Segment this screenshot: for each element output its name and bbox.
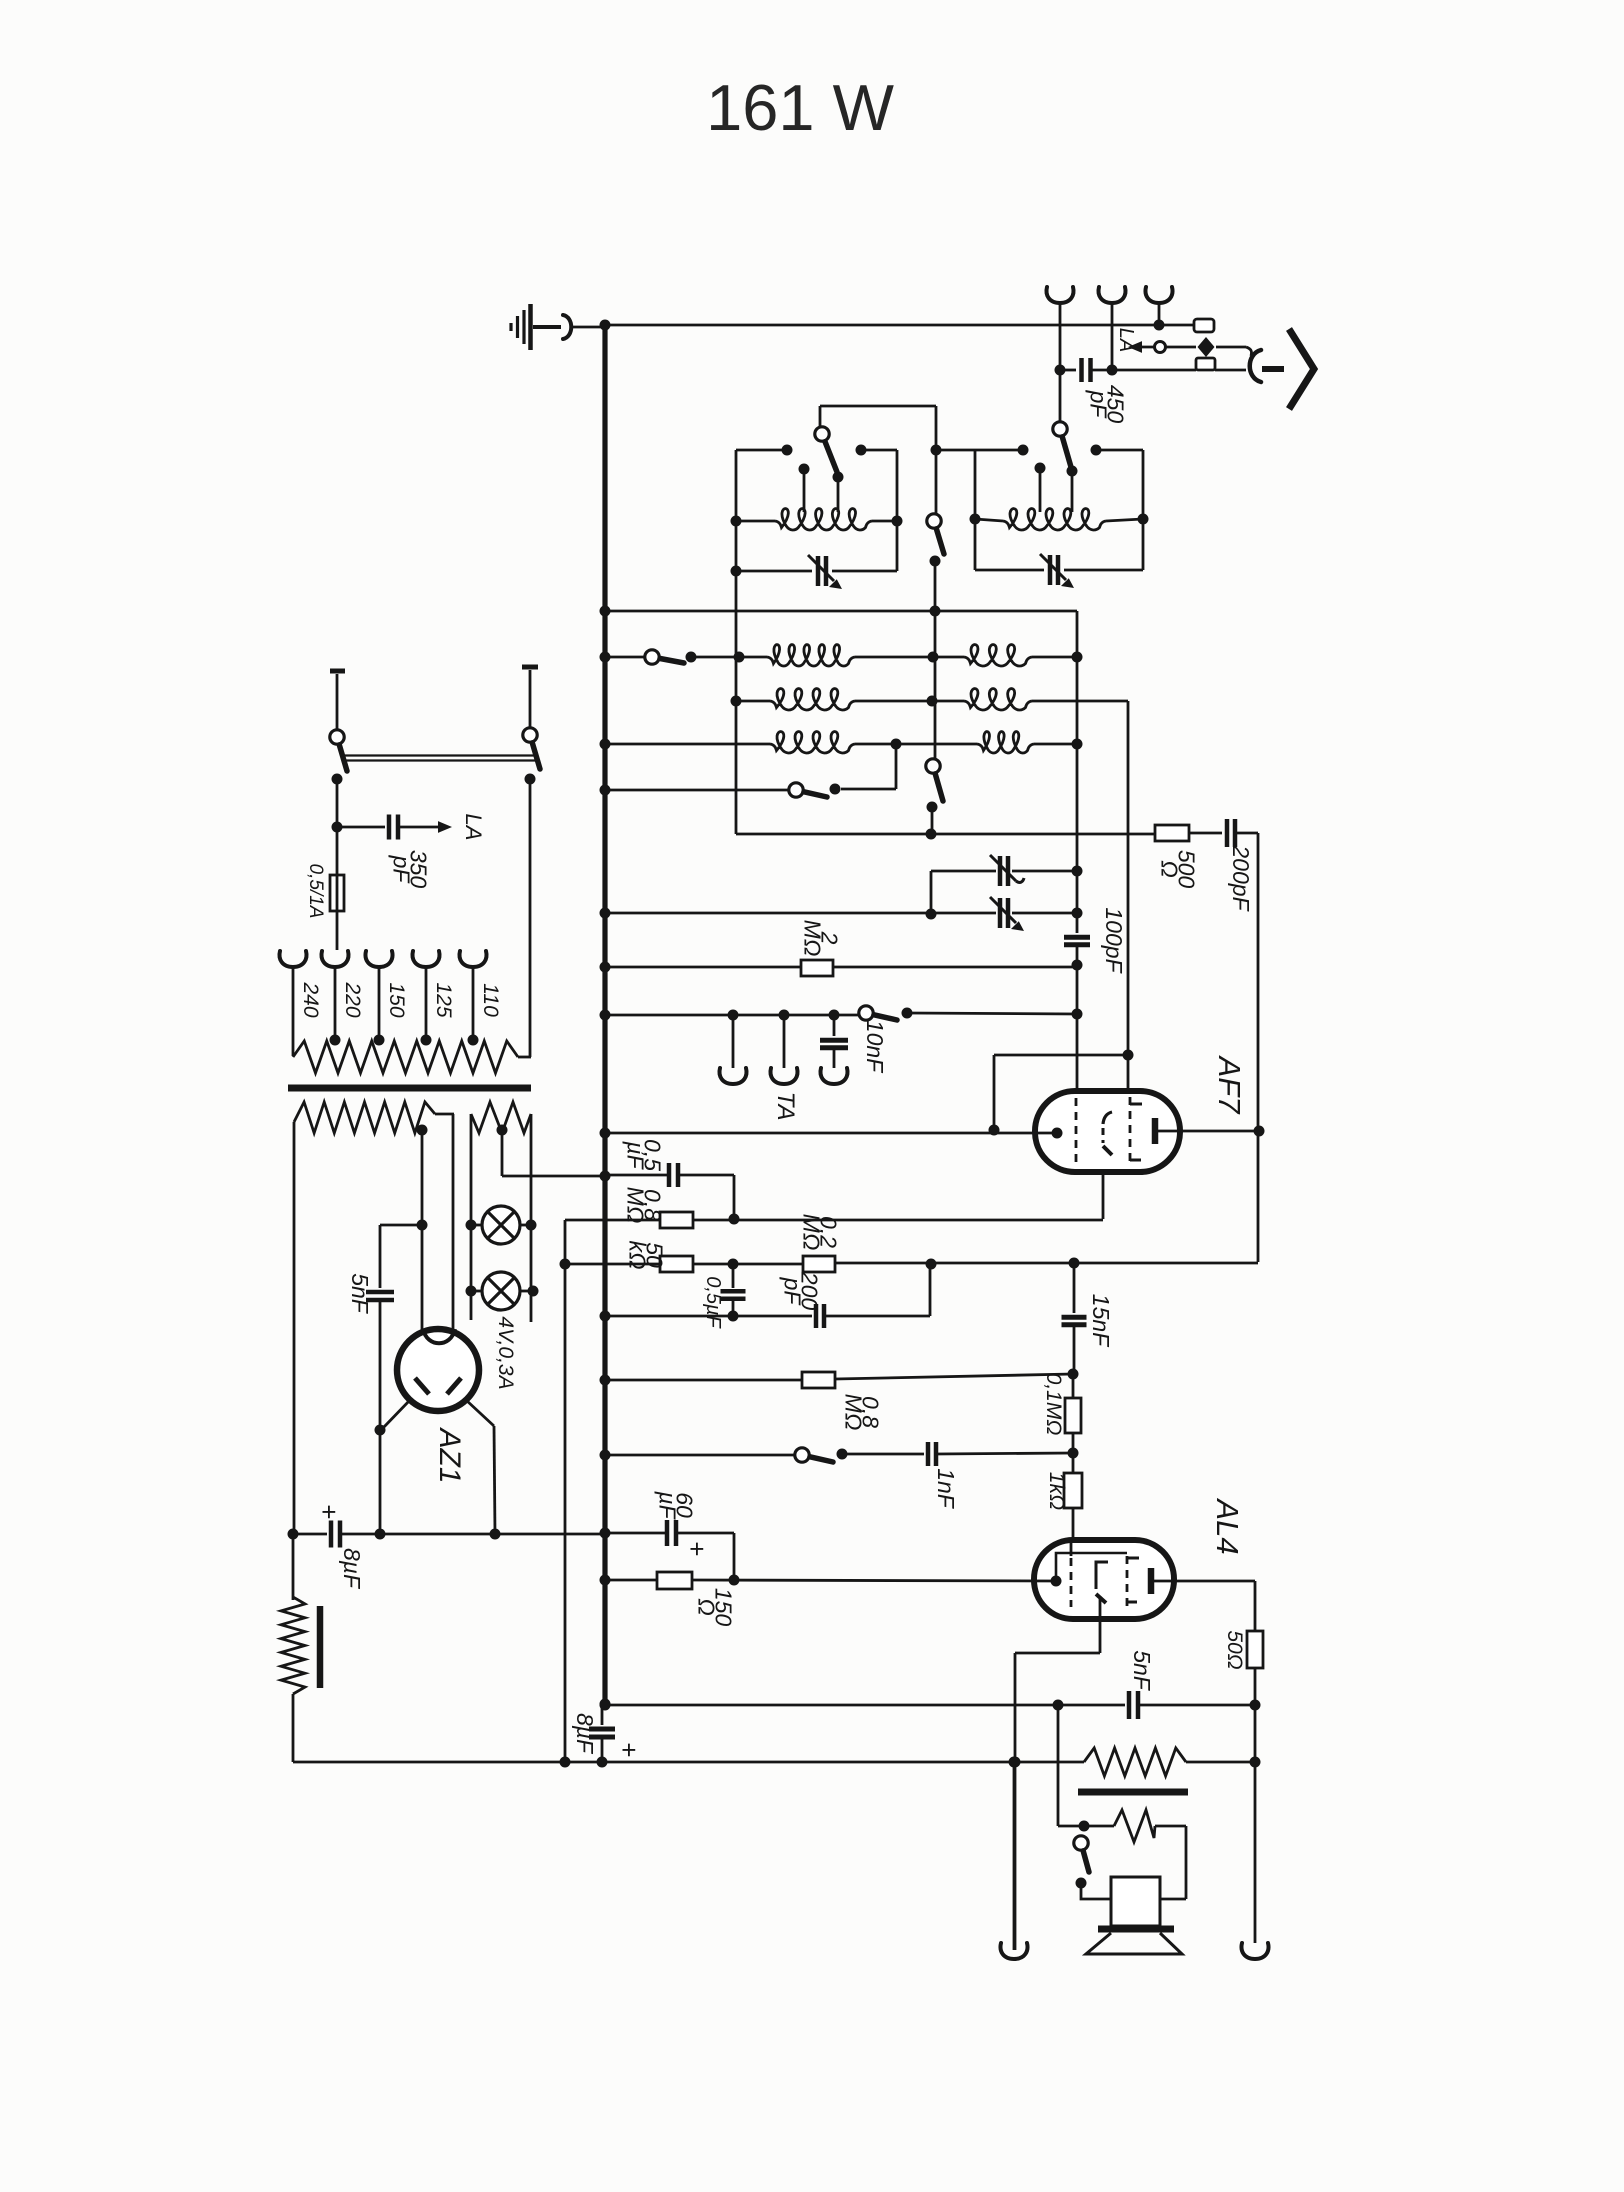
svg-text:0,5/1A: 0,5/1A <box>305 864 326 919</box>
svg-text:100pF: 100pF <box>1101 907 1127 974</box>
svg-text:MΩ: MΩ <box>623 1187 649 1224</box>
svg-text:LA: LA <box>1115 328 1137 352</box>
svg-text:TA: TA <box>772 1092 799 1121</box>
svg-text:Ω: Ω <box>1157 860 1183 878</box>
svg-text:50Ω: 50Ω <box>1223 1630 1246 1669</box>
svg-text:kΩ: kΩ <box>625 1241 651 1270</box>
svg-text:pF: pF <box>389 855 415 885</box>
svg-text:µF: µF <box>623 1140 649 1170</box>
svg-text:+: + <box>614 1742 644 1757</box>
svg-text:0,1MΩ: 0,1MΩ <box>1042 1373 1065 1436</box>
svg-text:+: + <box>314 1504 344 1519</box>
svg-text:161 W: 161 W <box>706 71 895 144</box>
svg-text:125: 125 <box>432 982 455 1017</box>
svg-text:8µF: 8µF <box>339 1548 365 1590</box>
svg-text:MΩ: MΩ <box>799 1214 825 1251</box>
svg-text:15nF: 15nF <box>1088 1294 1114 1348</box>
svg-text:Ω: Ω <box>694 1598 720 1616</box>
svg-text:200pF: 200pF <box>1228 844 1254 912</box>
svg-text:5nF: 5nF <box>1129 1650 1155 1692</box>
svg-text:µF: µF <box>655 1490 681 1520</box>
svg-text:10nF: 10nF <box>862 1020 888 1074</box>
svg-text:8µF: 8µF <box>572 1713 598 1755</box>
svg-text:110: 110 <box>479 983 502 1017</box>
svg-text:+: + <box>682 1541 712 1556</box>
svg-text:220: 220 <box>341 981 364 1017</box>
svg-text:150: 150 <box>385 982 408 1017</box>
svg-text:4V,0,3A: 4V,0,3A <box>494 1316 517 1389</box>
svg-text:LA: LA <box>461 814 486 841</box>
svg-text:pF: pF <box>780 1277 806 1307</box>
svg-text:1nF: 1nF <box>933 1468 959 1510</box>
svg-text:AL4: AL4 <box>1210 1497 1245 1554</box>
svg-text:MΩ: MΩ <box>841 1394 867 1431</box>
svg-text:240: 240 <box>299 981 322 1017</box>
svg-text:5nF: 5nF <box>347 1273 373 1315</box>
svg-text:AF7: AF7 <box>1212 1055 1247 1116</box>
svg-text:1kΩ: 1kΩ <box>1045 1472 1068 1510</box>
svg-text:AZ1: AZ1 <box>433 1426 466 1483</box>
svg-text:0,5µF: 0,5µF <box>702 1276 724 1329</box>
svg-text:pF: pF <box>1086 390 1112 420</box>
svg-text:MΩ: MΩ <box>800 920 826 957</box>
